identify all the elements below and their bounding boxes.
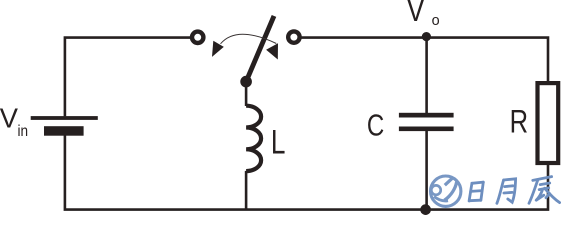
svg-text:R: R	[510, 105, 528, 140]
resistor R box	[538, 83, 559, 163]
switch arrowhead right	[266, 43, 278, 59]
wire: capacitor bottom plate down to bottom junction	[425, 131, 428, 210]
bottom junction node	[420, 204, 431, 215]
watermark character yue	[497, 179, 516, 204]
wire: node Vo down to capacitor top plate	[425, 38, 428, 114]
watermark logo bottom swoosh	[434, 197, 448, 201]
switch motion arc	[221, 34, 277, 44]
watermark logo diagonal bar	[445, 178, 453, 185]
watermark logo small circle	[431, 185, 440, 194]
capacitor C bottom plate	[399, 127, 454, 132]
svg-text:V: V	[407, 0, 425, 29]
svg-text:C: C	[367, 108, 384, 142]
watermark character chen	[529, 177, 560, 204]
switch left terminal	[192, 32, 203, 43]
capacitor C top plate	[399, 113, 454, 118]
switch pole dot	[240, 76, 252, 88]
watermark logo outer ring	[431, 176, 461, 206]
switch arrowhead left	[212, 41, 224, 57]
svg-text:o: o	[432, 13, 440, 29]
switch blade	[246, 16, 274, 82]
svg-text:in: in	[18, 123, 29, 140]
svg-text:V: V	[0, 103, 19, 134]
switch right terminal	[288, 31, 299, 42]
battery V_in positive plate	[31, 116, 98, 120]
wire: switch pole down to inductor top	[245, 82, 248, 106]
wire: right switch terminal across top to node Vo, down right side to resistor R	[301, 38, 548, 82]
wire: battery positive up to top-left corner, across to left switch terminal	[65, 38, 191, 117]
node Vo junction dot	[422, 32, 431, 41]
watermark logo right hook	[445, 182, 457, 201]
watermark character ri	[469, 182, 483, 201]
wire: inductor bottom to bottom rail	[245, 171, 248, 210]
wire: battery negative down, bottom rail, up right side to resistor bottom	[65, 136, 548, 210]
battery V_in negative plate	[44, 126, 84, 136]
svg-text:L: L	[271, 124, 286, 161]
inductor L	[246, 106, 261, 171]
